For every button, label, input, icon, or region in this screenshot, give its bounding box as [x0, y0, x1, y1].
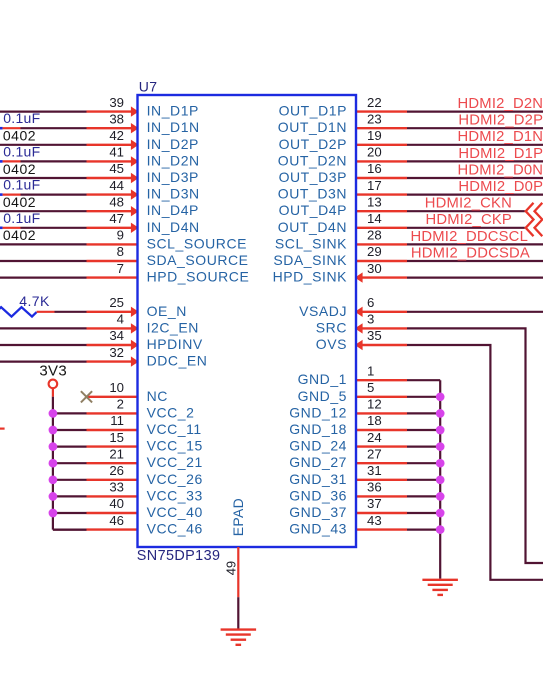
svg-text:38: 38 — [109, 111, 124, 126]
svg-text:0.1uF: 0.1uF — [3, 177, 40, 193]
svg-text:OUT_D3N: OUT_D3N — [278, 186, 347, 202]
svg-text:30: 30 — [367, 261, 382, 276]
svg-text:3: 3 — [367, 312, 374, 327]
svg-text:OVS: OVS — [316, 336, 347, 352]
svg-text:VCC_2: VCC_2 — [147, 404, 195, 420]
svg-text:20: 20 — [367, 145, 382, 160]
svg-text:VSADJ: VSADJ — [299, 303, 347, 319]
svg-text:HDMI2_D0N: HDMI2_D0N — [458, 162, 543, 178]
svg-text:15: 15 — [109, 430, 124, 445]
svg-text:HDMI2_D0P: HDMI2_D0P — [458, 179, 543, 195]
svg-text:IN_D4N: IN_D4N — [147, 219, 200, 235]
svg-text:GND_36: GND_36 — [289, 487, 347, 503]
svg-text:0.1uF: 0.1uF — [3, 143, 40, 159]
svg-text:25: 25 — [109, 295, 124, 310]
svg-text:VCC_33: VCC_33 — [147, 487, 203, 503]
svg-text:GND_5: GND_5 — [298, 388, 347, 404]
svg-text:HDMI2_D2P: HDMI2_D2P — [458, 113, 543, 129]
svg-text:5: 5 — [367, 380, 374, 395]
svg-text:HPD_SINK: HPD_SINK — [273, 269, 348, 285]
svg-text:0402: 0402 — [3, 227, 36, 243]
svg-text:HDMI2_CKP: HDMI2_CKP — [426, 212, 513, 228]
svg-text:4: 4 — [117, 312, 124, 327]
svg-text:OUT_D2N: OUT_D2N — [278, 152, 347, 168]
svg-text:19: 19 — [367, 128, 382, 143]
svg-text:HPD_SOURCE: HPD_SOURCE — [147, 269, 250, 285]
svg-text:SDA_SOURCE: SDA_SOURCE — [147, 252, 249, 268]
svg-text:IN_D2N: IN_D2N — [147, 152, 200, 168]
svg-text:36: 36 — [367, 480, 382, 495]
svg-text:0.1uF: 0.1uF — [3, 110, 40, 126]
svg-text:47: 47 — [109, 211, 124, 226]
svg-text:GND_12: GND_12 — [289, 404, 347, 420]
svg-text:IN_D4P: IN_D4P — [147, 202, 199, 218]
svg-text:VCC_40: VCC_40 — [147, 504, 203, 520]
svg-text:17: 17 — [367, 178, 382, 193]
svg-text:18: 18 — [367, 413, 382, 428]
svg-text:16: 16 — [367, 161, 382, 176]
svg-text:OUT_D1N: OUT_D1N — [278, 119, 347, 135]
svg-text:GND_37: GND_37 — [289, 504, 347, 520]
svg-text:I2C_EN: I2C_EN — [147, 319, 199, 335]
svg-text:32: 32 — [109, 345, 124, 360]
svg-text:DDC_EN: DDC_EN — [147, 353, 208, 369]
svg-text:48: 48 — [109, 194, 124, 209]
svg-text:VCC_11: VCC_11 — [147, 421, 202, 437]
svg-text:OUT_D3P: OUT_D3P — [279, 169, 347, 185]
svg-text:GND_18: GND_18 — [289, 421, 347, 437]
svg-text:46: 46 — [109, 513, 124, 528]
svg-text:9: 9 — [117, 228, 124, 243]
svg-text:SCL_SINK: SCL_SINK — [275, 235, 347, 251]
svg-text:40: 40 — [109, 496, 124, 511]
svg-text:HDMI2_D2N: HDMI2_D2N — [458, 96, 543, 112]
svg-text:39: 39 — [109, 95, 124, 110]
svg-text:23: 23 — [367, 111, 382, 126]
svg-text:10: 10 — [109, 380, 124, 395]
svg-text:34: 34 — [109, 328, 124, 343]
svg-text:HDMI2_D1P: HDMI2_D1P — [458, 146, 543, 162]
svg-text:GND_24: GND_24 — [289, 438, 347, 454]
svg-text:44: 44 — [109, 178, 124, 193]
svg-text:GND_27: GND_27 — [289, 454, 347, 470]
svg-text:IN_D3P: IN_D3P — [147, 169, 199, 185]
svg-text:IN_D1N: IN_D1N — [147, 119, 200, 135]
svg-text:31: 31 — [367, 463, 382, 478]
svg-text:2: 2 — [117, 397, 124, 412]
svg-text:27: 27 — [367, 446, 382, 461]
svg-text:42: 42 — [109, 128, 124, 143]
svg-text:VCC_26: VCC_26 — [147, 471, 203, 487]
svg-text:12: 12 — [367, 397, 382, 412]
svg-text:OUT_D1P: OUT_D1P — [279, 103, 347, 119]
svg-text:HDMI2_D1N: HDMI2_D1N — [458, 129, 543, 145]
svg-text:8: 8 — [117, 244, 124, 259]
svg-text:SCL_SOURCE: SCL_SOURCE — [147, 235, 247, 251]
svg-text:33: 33 — [109, 480, 124, 495]
svg-text:IN_D3N: IN_D3N — [147, 186, 200, 202]
svg-text:HDMI2_DDCSDA: HDMI2_DDCSDA — [411, 245, 530, 261]
svg-text:OUT_D4P: OUT_D4P — [279, 202, 347, 218]
svg-text:SDA_SINK: SDA_SINK — [273, 252, 347, 268]
svg-text:4.7K: 4.7K — [19, 293, 50, 309]
svg-text:41: 41 — [109, 145, 124, 160]
svg-text:VCC_21: VCC_21 — [147, 454, 203, 470]
svg-text:22: 22 — [367, 95, 382, 110]
svg-text:3V3: 3V3 — [39, 362, 67, 379]
svg-text:HDMI2_DDCSCL: HDMI2_DDCSCL — [410, 229, 528, 245]
svg-text:24: 24 — [367, 430, 382, 445]
svg-text:0.1uF: 0.1uF — [3, 210, 40, 226]
svg-text:SN75DP139: SN75DP139 — [137, 548, 221, 564]
svg-text:49: 49 — [224, 561, 239, 575]
svg-text:35: 35 — [367, 328, 382, 343]
svg-text:GND_43: GND_43 — [289, 521, 347, 537]
svg-text:11: 11 — [110, 413, 124, 428]
svg-text:IN_D2P: IN_D2P — [147, 136, 199, 152]
svg-text:45: 45 — [109, 161, 124, 176]
svg-text:0402: 0402 — [3, 128, 36, 144]
svg-text:VCC_15: VCC_15 — [147, 438, 203, 454]
svg-text:0402: 0402 — [3, 161, 36, 177]
svg-text:6: 6 — [367, 295, 374, 310]
svg-text:GND_31: GND_31 — [289, 471, 347, 487]
svg-text:SRC: SRC — [316, 319, 347, 335]
svg-text:EPAD: EPAD — [230, 498, 246, 536]
svg-text:13: 13 — [367, 194, 382, 209]
svg-text:IN_D1P: IN_D1P — [147, 103, 199, 119]
svg-text:OUT_D2P: OUT_D2P — [279, 136, 347, 152]
svg-text:7: 7 — [117, 261, 124, 276]
svg-text:OE_N: OE_N — [147, 303, 187, 319]
svg-text:26: 26 — [109, 463, 124, 478]
svg-text:GND_1: GND_1 — [298, 371, 347, 387]
svg-text:U7: U7 — [139, 79, 158, 95]
svg-text:43: 43 — [367, 513, 382, 528]
svg-text:28: 28 — [367, 228, 382, 243]
svg-text:HDMI2_CKN: HDMI2_CKN — [425, 196, 512, 212]
svg-text:37: 37 — [367, 496, 382, 511]
svg-text:OUT_D4N: OUT_D4N — [278, 219, 347, 235]
svg-text:1: 1 — [367, 363, 374, 378]
svg-text:29: 29 — [367, 244, 382, 259]
svg-text:14: 14 — [367, 211, 382, 226]
svg-text:HPDINV: HPDINV — [147, 336, 203, 352]
svg-text:0402: 0402 — [3, 194, 36, 210]
svg-text:VCC_46: VCC_46 — [147, 521, 203, 537]
svg-text:21: 21 — [109, 446, 124, 461]
svg-text:NC: NC — [147, 388, 168, 404]
